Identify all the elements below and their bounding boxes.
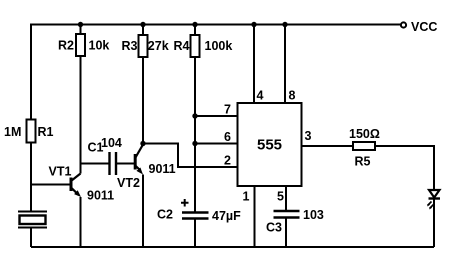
wire 555 pin 5 to C3 [285, 186, 287, 211]
svg-text:6: 6 [224, 130, 231, 144]
svg-text:10k: 10k [89, 39, 110, 53]
wire 555 pin 3 to R5 [302, 145, 354, 147]
svg-text:9011: 9011 [149, 162, 176, 176]
svg-text:R1: R1 [38, 125, 54, 139]
svg-text:4: 4 [257, 89, 264, 103]
LED D1 [427, 190, 440, 247]
wire VT2 collector to 555 pin 2 [143, 144, 238, 168]
resistor R5 [353, 142, 434, 190]
svg-text:VCC: VCC [411, 20, 437, 34]
IC U1 555 timer box [238, 103, 302, 186]
svg-text:C3: C3 [266, 221, 282, 235]
svg-text:8: 8 [289, 89, 296, 103]
transistor VT1 [71, 174, 81, 248]
svg-text:VT2: VT2 [117, 176, 140, 190]
capacitor C2 electrolytic [182, 213, 209, 248]
node dot R4 top [192, 22, 197, 27]
resistor R4 [191, 25, 200, 213]
svg-text:C2: C2 [157, 208, 173, 222]
svg-text:5: 5 [277, 190, 284, 204]
wire VT1 base from R1 node [31, 184, 70, 186]
svg-text:R5: R5 [355, 155, 371, 169]
microphone HTD (piezo element) [18, 212, 47, 248]
svg-text:103: 103 [303, 208, 324, 222]
svg-text:150Ω: 150Ω [349, 127, 380, 141]
resistor R2 [76, 25, 85, 174]
svg-text:27k: 27k [148, 39, 169, 53]
node dot R2 top [78, 22, 83, 27]
node dot VT2 collector / R3 [140, 141, 145, 146]
wire 555 pin 4 to VCC rail [253, 25, 255, 104]
svg-text:7: 7 [224, 103, 231, 117]
svg-text:R2: R2 [58, 39, 74, 53]
wire bottom ground rail [31, 246, 434, 248]
svg-text:9011: 9011 [87, 189, 114, 203]
wire C1 branch from VT1 collector node [81, 163, 109, 165]
wire 555 pin 1 to ground [254, 186, 256, 247]
svg-text:1M: 1M [4, 125, 21, 139]
svg-text:47µF: 47µF [212, 209, 241, 223]
svg-text:104: 104 [101, 136, 122, 150]
wire to 555 pin 6 [195, 143, 238, 145]
capacitor C3 [274, 211, 300, 247]
node dot R4 / pin7 [192, 113, 197, 118]
transistor VT2 [135, 145, 143, 248]
node dot R4 / pin6 [192, 141, 197, 146]
svg-text:VT1: VT1 [49, 165, 72, 179]
resistor R3 [139, 25, 148, 144]
resistor R1 [27, 25, 36, 211]
VCC terminal circle [401, 22, 406, 27]
node dot pin4 top [251, 22, 256, 27]
svg-text:R4: R4 [174, 39, 190, 53]
node dot pin8 top [282, 22, 287, 27]
svg-text:R3: R3 [122, 39, 138, 53]
svg-text:1: 1 [243, 190, 250, 204]
wire to 555 pin 7 [195, 115, 238, 117]
svg-text:555: 555 [257, 137, 282, 154]
svg-text:3: 3 [305, 129, 312, 143]
wire top VCC rail and left rail [31, 25, 401, 211]
plus sign of C2 [181, 199, 189, 207]
wire 555 pin 8 to VCC rail [284, 25, 286, 104]
node dot R3 top [140, 22, 145, 27]
svg-text:100k: 100k [205, 39, 233, 53]
capacitor C1 [110, 152, 135, 175]
svg-text:2: 2 [224, 154, 231, 168]
